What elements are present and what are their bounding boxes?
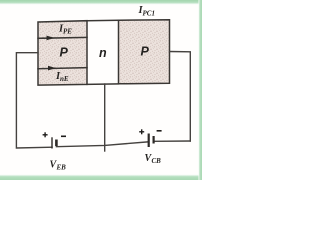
svg-text:CB: CB	[152, 157, 162, 165]
svg-text:nE: nE	[60, 75, 69, 83]
svg-text:EB: EB	[56, 164, 67, 172]
svg-text:P: P	[141, 45, 150, 59]
svg-text:PE: PE	[63, 28, 72, 36]
svg-text:P: P	[60, 46, 69, 60]
svg-text:PC1: PC1	[143, 10, 155, 18]
svg-text:n: n	[99, 46, 107, 60]
